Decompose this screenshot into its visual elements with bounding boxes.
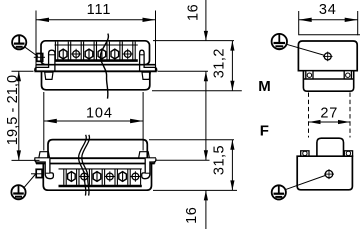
screw F4 circle-cross [105,171,115,181]
16 bottom: line below [205,190,207,229]
cells bottom thick band [55,59,138,62]
16 bottom upper outside arrow [204,150,208,160]
flange top line [36,64,156,66]
svg-text:31,2: 31,2 [212,48,228,78]
svg-text:34: 34 [319,2,337,18]
flange left edge [35,65,37,72]
M side main housing [298,41,357,71]
cells top line F [59,168,142,170]
leader to panel screw M [287,44,325,55]
terminal block outline [41,41,150,65]
screw F2 circle-cross [79,171,89,181]
dim 27 line [309,121,351,123]
collar top line [303,78,353,80]
earth symbol bottom-left [11,185,25,199]
svg-text:16: 16 [186,4,202,21]
flange bottom line [34,70,156,72]
screw 1 hex [59,49,67,59]
right fixing bracket [140,50,157,71]
screw 6 circle-cross [123,49,133,59]
earth symbol top-right [272,34,287,49]
flange right edge F [154,158,156,163]
M collar [303,71,353,92]
screw 3 hex [85,49,93,59]
ref line bottom of M body [152,90,242,92]
bracket washer lines [49,54,55,56]
dim 16 top: line above [205,0,207,41]
PE terminal screw left [31,169,44,177]
leader to PE screw [25,47,39,57]
terminal block F [43,164,151,191]
right peg [142,72,150,79]
ref line bottom of F block [153,189,237,191]
svg-text:104: 104 [86,106,113,122]
screw F1 hex [68,172,76,182]
screw F6 circle-cross [130,171,140,181]
F left ear [301,151,309,156]
F panel screw hole [324,169,334,179]
earth symbol top-left [12,35,26,49]
flange bottom line F [36,163,155,165]
break squiggle top view [100,34,108,99]
dim 34 line [299,19,358,21]
screw 5 hex [111,49,119,59]
earth symbol bottom-right [272,185,286,199]
cell walls F [64,169,141,185]
F boss [317,138,344,156]
dim 111 line [36,19,156,21]
break squiggle F (double) [82,135,90,196]
svg-text:111: 111 [87,2,112,18]
dim 19,5-21,0 reference lines [12,70,34,72]
ref line top of F body [149,139,234,141]
ref line feet plane F [156,159,210,161]
flange top line F [34,157,156,159]
dim 34 extension lines [298,11,300,35]
PE terminal screw left [34,54,45,62]
M right foot [344,71,351,79]
leader to PE screw [24,173,37,188]
left peg [45,72,53,79]
F side main housing [297,156,352,190]
hood outline sliver above M view [299,34,360,36]
body upper housing F [48,140,147,159]
screw 2 circle-cross [71,49,81,59]
svg-text:27: 27 [320,106,338,122]
svg-text:M: M [258,78,271,95]
leader to panel screw F [285,175,325,189]
F right ear [344,151,352,156]
ref line top of insert [153,40,234,42]
svg-text:19,5 - 21,0: 19,5 - 21,0 [5,75,21,145]
svg-text:31,5: 31,5 [212,145,228,175]
dim 19,5-21,0 line [18,71,20,160]
right fixing bracket F [142,158,156,178]
screw F5 hex [119,172,127,182]
dim 31,5 line [231,140,233,191]
left fixing bracket F [35,158,54,178]
screw F3 hex [93,172,101,182]
dim 111 extension lines [35,11,37,67]
left stud F [39,152,50,159]
dim 104 extension lines [43,92,45,151]
dim 104 line [44,120,143,122]
bracket washer lines F [45,172,50,174]
svg-text:F: F [260,122,269,139]
ref line feet plane M [158,70,209,72]
dim 31,2 line [231,41,233,91]
left fixing bracket [35,50,55,71]
flange right edge [155,65,157,72]
flange left edge F [35,158,37,163]
cells bottom thick band F [59,185,142,188]
M panel screw hole [323,52,333,62]
dim 27 dashed extension lines [308,93,310,138]
screw 4 hex [98,49,106,59]
16 top lower outside arrow + shared tail [204,71,208,81]
svg-text:16: 16 [184,207,200,224]
cell walls [55,42,135,60]
cells top line [55,44,138,46]
body lower housing [42,71,150,90]
right stud F [139,152,150,159]
M left foot [306,71,313,79]
